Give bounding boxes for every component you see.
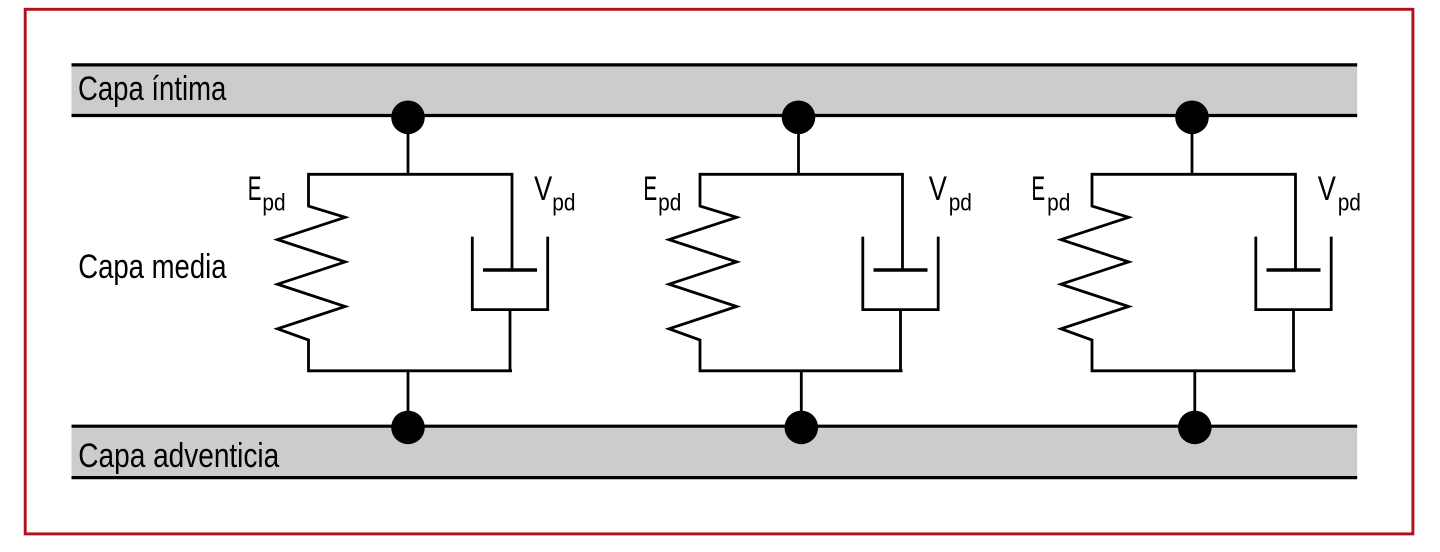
svg-text:E: E: [248, 169, 262, 208]
wire: bottom bar of Kelvin-Voigt unit 2: [700, 369, 903, 372]
wire: dashpot 1 cup to bottom bar of unit: [509, 310, 512, 371]
label V_pd 2: [929, 169, 972, 216]
node top 2 (junction to Capa intima): [782, 101, 816, 135]
label E_pd 2: [643, 169, 681, 215]
node bottom 2 (junction to Capa adventicia): [785, 411, 819, 445]
wire: unit 1 to bottom node: [407, 371, 410, 428]
dashpot V_pd 3: cylinder cup: [1256, 237, 1331, 310]
spring E_pd 1 (zigzag, left branch): [278, 173, 346, 372]
dashpot V_pd 2: piston plate: [874, 268, 928, 271]
svg-text:E: E: [1031, 169, 1045, 208]
dashpot V_pd 2: piston rod: [901, 173, 904, 270]
wire: unit 2 to bottom node: [800, 371, 803, 428]
svg-text:V: V: [534, 169, 552, 208]
dashpot V_pd 3: piston rod: [1294, 173, 1297, 270]
node top 1 (junction to Capa intima): [391, 101, 425, 135]
spring E_pd 3 (zigzag, left branch): [1061, 173, 1129, 372]
wire: bottom bar of Kelvin-Voigt unit 3: [1092, 369, 1296, 372]
svg-text:pd: pd: [552, 189, 575, 216]
wire: unit 3 to bottom node: [1193, 371, 1196, 428]
svg-text:pd: pd: [1338, 189, 1361, 216]
wire: top node 1 to Kelvin-Voigt frame: [407, 117, 410, 174]
svg-text:Capa media: Capa media: [78, 247, 227, 286]
node top 3 (junction to Capa intima): [1175, 101, 1209, 135]
svg-text:pd: pd: [658, 189, 681, 216]
svg-text:E: E: [643, 169, 657, 208]
wire: bottom bar of Kelvin-Voigt unit 1: [309, 369, 513, 372]
dashpot V_pd 1: piston plate: [483, 268, 537, 271]
label E_pd 3: [1031, 169, 1070, 215]
label V_pd 1: [534, 169, 575, 216]
wire: top node 3 to Kelvin-Voigt frame: [1191, 117, 1194, 174]
node bottom 1 (junction to Capa adventicia): [391, 411, 425, 445]
svg-text:V: V: [929, 169, 947, 208]
wire: top bar of Kelvin-Voigt unit 1: [309, 173, 513, 176]
svg-text:Capa íntima: Capa íntima: [78, 69, 227, 108]
svg-text:V: V: [1318, 169, 1336, 208]
wire: dashpot 3 cup to bottom bar of unit: [1292, 310, 1295, 371]
dashpot V_pd 2: cylinder cup: [863, 237, 938, 310]
wire: top node 2 to Kelvin-Voigt frame: [797, 117, 800, 174]
wire: top bar of Kelvin-Voigt unit 2: [700, 173, 903, 176]
label Capa intima: [78, 69, 227, 108]
svg-text:pd: pd: [1047, 189, 1070, 216]
wire: dashpot 2 cup to bottom bar of unit: [899, 310, 902, 371]
label Capa adventicia: [78, 436, 279, 474]
wire: top bar of Kelvin-Voigt unit 3: [1092, 173, 1296, 176]
svg-text:pd: pd: [262, 189, 285, 216]
label V_pd 3: [1318, 169, 1361, 216]
label Capa media: [78, 247, 227, 286]
layer bar: Capa intima (top rigid bar): [72, 65, 1358, 116]
svg-text:Capa adventicia: Capa adventicia: [78, 436, 279, 474]
dashpot V_pd 3: piston plate: [1267, 268, 1321, 271]
spring E_pd 2 (zigzag, left branch): [669, 173, 737, 372]
label E_pd 1: [248, 169, 286, 215]
layer bar: Capa adventicia (bottom rigid bar): [72, 426, 1358, 477]
dashpot V_pd 1: piston rod: [511, 173, 514, 270]
svg-text:pd: pd: [949, 189, 972, 216]
dashpot V_pd 1: cylinder cup: [472, 237, 547, 310]
node bottom 3 (junction to Capa adventicia): [1178, 411, 1212, 445]
